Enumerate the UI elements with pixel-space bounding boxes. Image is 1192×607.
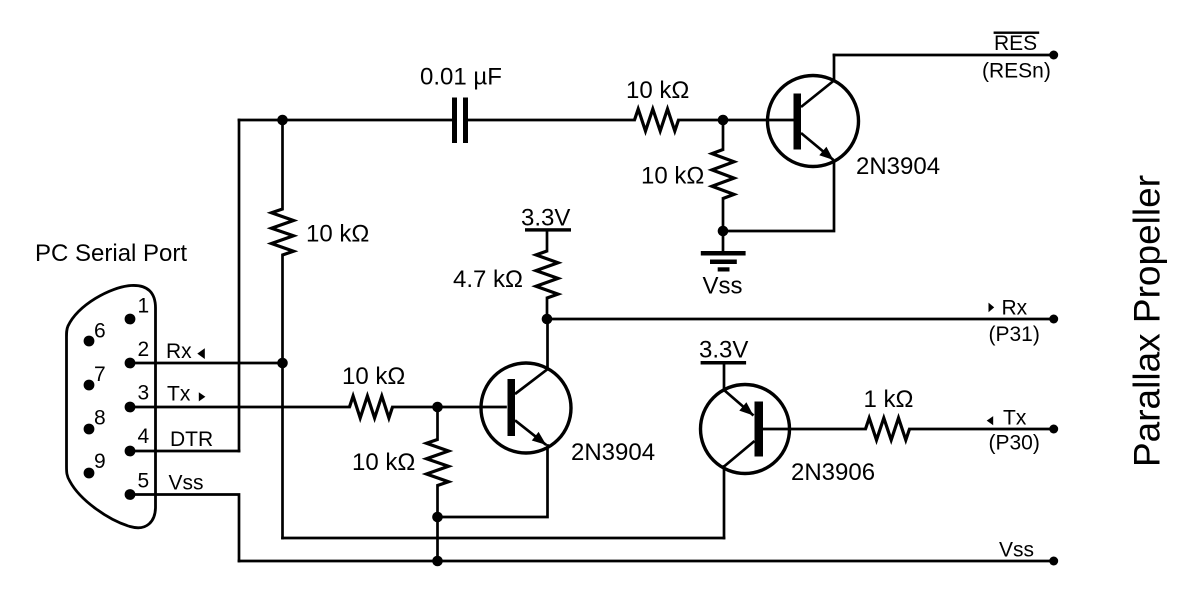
pin 6 (84, 320, 106, 347)
pin 3 (125, 382, 150, 413)
wire ground stem (722, 231, 725, 251)
pin 5 (125, 470, 150, 500)
wire 3.3V to 2N3906 emitter (723, 365, 726, 391)
DB9 connector outline (66, 285, 155, 527)
pin 9 (84, 450, 106, 478)
svg-text:10 kΩ: 10 kΩ (352, 449, 415, 476)
node Vss rail junction (437.5,561) (432, 556, 443, 567)
wire node A vertical (x=282) from top net down to 2N3906 collector (281, 120, 284, 538)
node Q2 emitter junction (437.5,517) (432, 512, 443, 523)
pin 2 (125, 338, 150, 368)
wire Rx line to Propeller (547, 318, 1054, 321)
wire capacitor right to Q1 base (through R series) (468, 119, 794, 122)
wire Rx from pin 2 (130, 362, 283, 365)
wire 2N3906 base to 1k and Tx terminal (763, 428, 1054, 431)
svg-text:8: 8 (94, 407, 106, 430)
resistor 10 kOhm Tx series (350, 396, 393, 418)
svg-text:7: 7 (94, 363, 106, 386)
resistor 10 kOhm series Q1 base (top) (635, 109, 679, 131)
svg-text:DTR: DTR (170, 428, 213, 451)
svg-text:10 kΩ: 10 kΩ (342, 363, 405, 390)
svg-text:4.7 kΩ: 4.7 kΩ (453, 266, 523, 293)
svg-text:10 kΩ: 10 kΩ (641, 163, 704, 190)
wire RES line to Propeller (834, 54, 1054, 57)
svg-text:3.3V: 3.3V (521, 205, 570, 232)
svg-text:(P31): (P31) (989, 323, 1040, 346)
svg-text:0.01 µF: 0.01 µF (420, 64, 502, 91)
resistor 10 kOhm Q1 base pulldown (x=723) (712, 150, 734, 199)
terminal dot RES (1049, 51, 1058, 60)
terminal dot Vss (1049, 557, 1058, 566)
svg-text:Rx: Rx (166, 340, 192, 363)
svg-text:9: 9 (94, 450, 106, 473)
svg-text:10 kΩ: 10 kΩ (626, 77, 689, 104)
junction node dots (277, 51, 1058, 567)
power 3.3V (2N3906 emitter) (699, 337, 748, 365)
pin 1 (125, 295, 150, 325)
wire 3.3V to 4.7k resistor (546, 232, 549, 252)
svg-text:Parallax Propeller: Parallax Propeller (1127, 175, 1168, 467)
transistor Q2 2N3904 (Rx) (481, 363, 571, 453)
svg-text:PC Serial Port: PC Serial Port (35, 240, 187, 267)
pin label Tx with right arrow (167, 383, 205, 406)
node A top (282,120) (277, 115, 288, 126)
node Rx/4.7k junction (547,319) (542, 314, 553, 325)
svg-text:(P30): (P30) (989, 432, 1040, 455)
terminal dot Rx P31 (1049, 315, 1058, 324)
svg-text:1: 1 (138, 295, 150, 318)
transistor Q3 2N3906 (Tx) (701, 385, 790, 474)
svg-text:6: 6 (94, 320, 106, 343)
svg-text:Vss: Vss (169, 472, 204, 495)
svg-text:Vss: Vss (703, 273, 743, 300)
wire DTR vertical riser (238, 120, 241, 451)
pin 8 (84, 407, 106, 435)
ground symbol Vss (701, 251, 746, 272)
wire Q1 emitter to ground junction (723, 161, 834, 231)
power 3.3V (4.7k pull-up) (521, 205, 571, 232)
terminal label Rx with arrow (989, 297, 1028, 320)
wire Q2 emitter to pulldown junction (438, 446, 548, 518)
svg-text:2N3904: 2N3904 (856, 153, 940, 180)
wire Vss bottom rail (239, 560, 1054, 563)
svg-text:Vss: Vss (999, 539, 1034, 562)
terminal dot Tx P30 (1049, 425, 1058, 434)
wire Tx from pin 3 to Q2 base (130, 406, 506, 409)
node Q1 base divider (723,120) (718, 115, 729, 126)
svg-text:2: 2 (138, 338, 150, 361)
resistor 1 kOhm Tx line (866, 418, 910, 440)
wire Q2 pulldown to Vss rail (436, 407, 439, 561)
wire Q1 collector riser (833, 55, 836, 81)
svg-text:1 kΩ: 1 kΩ (864, 386, 914, 413)
terminal label RES with overline (994, 32, 1040, 56)
resistor 10 kOhm Q2 base pulldown (x=437.5) (427, 440, 449, 486)
wire 2N3906 collector horizontal (y=538) (283, 537, 725, 540)
resistor 4.7 kOhm pull-up (x=547) (536, 251, 558, 298)
transistor Q1 2N3904 (reset) (768, 76, 859, 167)
wire Vss from pin 5 (130, 495, 240, 562)
svg-text:Tx: Tx (1003, 407, 1027, 430)
node Q2 base divider (437.5,407) (432, 402, 443, 413)
resistor 10 kOhm vertical node-A (x=282) (272, 209, 294, 255)
svg-text:3: 3 (138, 382, 150, 405)
pin label Rx with left arrow (166, 340, 205, 363)
svg-text:2N3906: 2N3906 (791, 459, 875, 486)
svg-text:Rx: Rx (1002, 297, 1028, 320)
svg-text:3.3V: 3.3V (699, 337, 748, 364)
wire DTR from pin 4 (130, 450, 240, 453)
svg-text:RES: RES (994, 32, 1037, 55)
wire Q1 base pulldown (x=723) (722, 120, 725, 231)
svg-text:(RESn): (RESn) (982, 60, 1051, 83)
svg-text:10 kΩ: 10 kΩ (306, 221, 369, 248)
capacitor C 0.01uF (452, 98, 468, 144)
pin 4 (125, 425, 150, 456)
terminal label Tx with arrow (987, 407, 1027, 430)
wire 4.7k to Rx node and Q2 collector (546, 298, 549, 369)
svg-text:4: 4 (138, 425, 150, 448)
node Rx pin junction (282,363) (277, 358, 288, 369)
pin 7 (84, 363, 106, 390)
wire DTR net: top horizontal to capacitor (239, 119, 452, 122)
wire 2N3906 collector drop (723, 467, 726, 539)
node Q1 emitter ground junction (723,231) (718, 226, 729, 237)
svg-text:Tx: Tx (167, 383, 191, 406)
svg-text:2N3904: 2N3904 (571, 439, 655, 466)
svg-text:5: 5 (138, 470, 150, 493)
